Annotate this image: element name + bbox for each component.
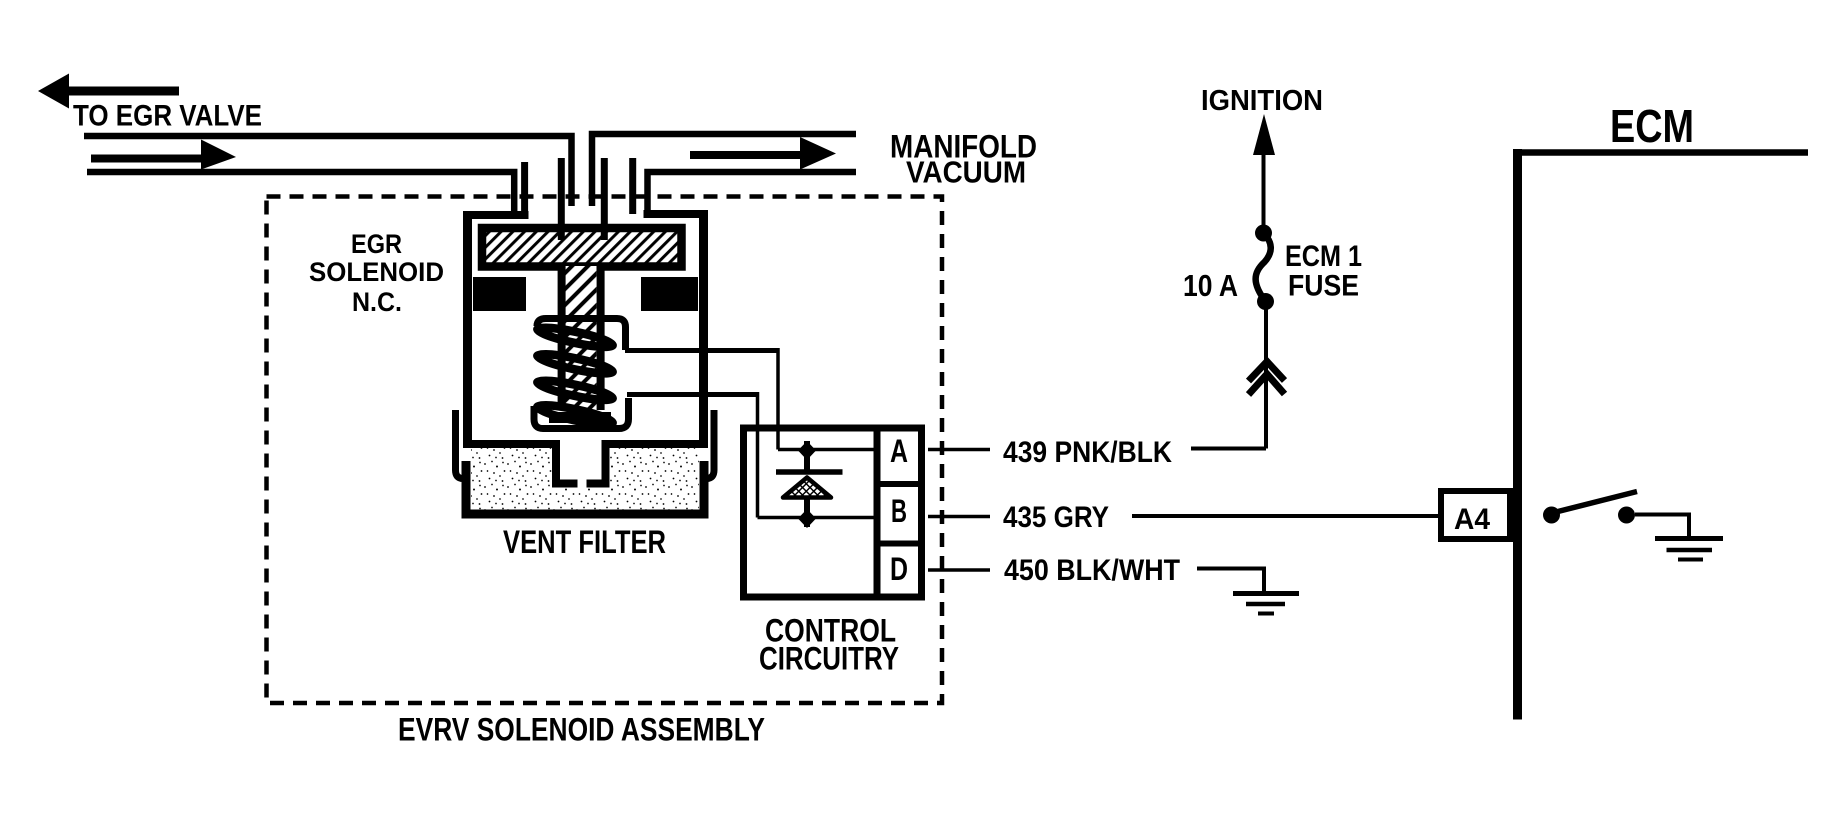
svg-text:A4: A4 — [1454, 503, 1490, 536]
ECM boundary top line — [1514, 149, 1808, 156]
wire pin B out — [928, 515, 990, 519]
svg-text:A: A — [890, 433, 908, 469]
fuse ECM 1 10A — [1255, 225, 1272, 242]
plunger channel wall stubs through cap border — [558, 225, 565, 240]
wire coil to control circuitry (top) — [625, 348, 778, 353]
connector terminal A4 box — [1441, 491, 1510, 539]
coil winding loop 4 — [536, 401, 614, 428]
svg-text:VACUUM: VACUUM — [906, 155, 1026, 190]
svg-text:450 BLK/WHT: 450 BLK/WHT — [1004, 554, 1180, 587]
connector chevron (in-line connector) — [1249, 362, 1285, 382]
solenoid container left shoulder — [463, 211, 529, 219]
wire 435 to A4 — [1132, 514, 1441, 518]
wire coil to control circuitry (bottom) — [627, 392, 758, 397]
wire A4 to ECM line — [1510, 514, 1517, 518]
wire pin D out — [928, 568, 990, 572]
vent filter stipple right — [610, 448, 699, 510]
wire 439 to fuse branch — [1191, 447, 1266, 451]
solenoid container left wall — [463, 211, 472, 444]
switch blade — [1556, 492, 1637, 513]
svg-text:ECM: ECM — [1610, 100, 1694, 152]
svg-text:IGNITION: IGNITION — [1201, 85, 1323, 117]
coil bobbin outline bottom — [534, 398, 629, 429]
connector pin column divider — [874, 428, 881, 597]
svg-text:B: B — [891, 493, 907, 529]
diode D1 — [804, 441, 810, 470]
svg-text:FUSE: FUSE — [1288, 270, 1359, 303]
ECM boundary vertical line — [1513, 149, 1522, 720]
vent filter stipple center — [552, 488, 610, 510]
svg-text:TO EGR VALVE: TO EGR VALVE — [73, 100, 262, 133]
ground for switch — [1655, 536, 1723, 541]
svg-text:EGR: EGR — [351, 229, 402, 259]
flow arrow in left pipe — [91, 155, 203, 163]
coil bobbin outline top — [537, 319, 626, 351]
svg-text:VENT FILTER: VENT FILTER — [503, 524, 666, 560]
vent filter cup — [466, 461, 704, 514]
coil pole piece right (black block) — [641, 277, 698, 311]
svg-text:EVRV SOLENOID ASSEMBLY: EVRV SOLENOID ASSEMBLY — [398, 712, 765, 748]
wire: left vacuum pipe upper line — [84, 136, 572, 206]
wire: manifold pipe lower line — [648, 172, 857, 214]
plunger channel wall right — [601, 158, 608, 230]
wire fuse to ignition arrow — [1262, 130, 1266, 236]
pin A/B divider — [877, 481, 922, 487]
coil winding loop 2 — [536, 350, 614, 377]
svg-text:435 GRY: 435 GRY — [1003, 501, 1109, 534]
flow arrow to manifold vacuum — [690, 151, 803, 159]
solenoid container right shoulder — [644, 210, 705, 218]
vent filter hook right — [703, 410, 714, 479]
svg-text:N.C.: N.C. — [352, 287, 402, 317]
wire: left vacuum pipe lower line — [87, 172, 514, 215]
coil winding loop 1 — [536, 324, 614, 351]
wire fuse branch vertical — [1264, 303, 1268, 449]
solenoid container right wall — [699, 210, 708, 444]
flow arrow to EGR valve — [38, 74, 179, 109]
svg-text:CIRCUITRY: CIRCUITRY — [759, 641, 899, 677]
tube stub right — [629, 158, 636, 214]
wire diode to pin B — [758, 516, 878, 520]
tube stub left — [521, 162, 528, 215]
solenoid container bottom left with valve seat — [463, 444, 578, 484]
vent filter hook left — [456, 410, 467, 479]
wire 450 to ground — [1197, 569, 1264, 594]
switch contact left — [1543, 507, 1560, 524]
coil pole piece left (black block) — [473, 277, 526, 311]
ground for 450 BLK/WHT — [1233, 591, 1299, 596]
svg-text:ECM 1: ECM 1 — [1285, 240, 1362, 273]
solenoid armature cap (hatched) — [482, 228, 682, 267]
coil winding loop 3 — [536, 377, 614, 404]
wire switch to ground — [1635, 515, 1689, 538]
pin B/D divider — [877, 541, 922, 547]
plunger channel wall left — [558, 158, 565, 230]
wire: manifold pipe upper line — [592, 134, 856, 206]
dashed box EVRV solenoid assembly — [267, 197, 943, 704]
wire pin A out — [928, 448, 990, 452]
vent filter stipple left — [471, 448, 552, 510]
switch contact right — [1618, 507, 1635, 524]
coil bottom end bar — [549, 412, 611, 423]
svg-text:439 PNK/BLK: 439 PNK/BLK — [1003, 436, 1172, 469]
wire diode to pin A — [778, 448, 877, 452]
control circuitry box — [744, 428, 922, 597]
svg-text:D: D — [890, 551, 908, 587]
plunger rod (hatched) — [566, 266, 597, 412]
svg-text:10 A: 10 A — [1183, 268, 1238, 303]
solenoid container bottom right with valve seat — [587, 444, 709, 484]
svg-text:SOLENOID: SOLENOID — [309, 257, 444, 287]
